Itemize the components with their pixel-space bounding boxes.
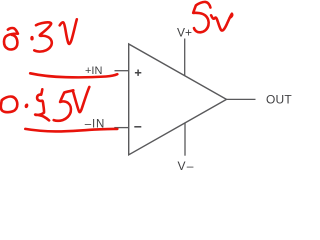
- pin label -IN: [85, 118, 105, 130]
- annotation 0.3V digit 0: [4, 28, 18, 49]
- pin label V-: [178, 159, 195, 173]
- annotation 5V letter V: [211, 14, 232, 31]
- annotation 0.25V decimal point: [24, 103, 29, 109]
- op-amp U1 non-inverting input marker +: [135, 70, 141, 76]
- annotation 0.25V letter V: [73, 87, 89, 112]
- wire +IN pin stub: [115, 70, 129, 72]
- annotation 0.3V digit 3: [34, 22, 52, 51]
- op-amp U1 inverting input marker -: [134, 126, 141, 128]
- wire V- supply stub: [184, 123, 186, 156]
- svg-text:OUT: OUT: [266, 93, 292, 107]
- svg-text:V+: V+: [177, 25, 192, 39]
- annotation 5V digit 5: [193, 2, 210, 32]
- annotation red underline under -IN: [25, 129, 117, 132]
- annotation 0.3V letter V: [60, 19, 77, 44]
- annotation 0.25V digit 5: [54, 90, 74, 120]
- svg-text:+IN: +IN: [85, 65, 102, 77]
- annotation 0.25V digit 2: [35, 89, 49, 120]
- annotation 0.3V decimal point: [30, 36, 33, 41]
- pin label V+: [177, 25, 192, 39]
- wire V+ supply stub: [184, 39, 186, 76]
- wire OUT stub: [227, 98, 256, 100]
- annotation 0.25V digit 0: [1, 97, 17, 113]
- annotation red underline under +IN: [30, 73, 117, 77]
- op-amp U1: [129, 44, 227, 155]
- svg-text:V–: V–: [178, 159, 195, 173]
- pin label OUT: [266, 93, 292, 107]
- pin label +IN: [85, 65, 102, 77]
- wire -IN pin stub: [114, 127, 128, 129]
